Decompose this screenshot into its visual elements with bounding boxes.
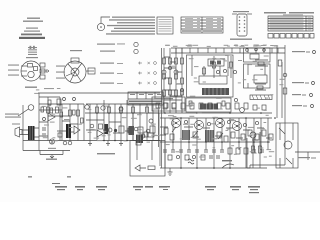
label text [230,186,241,188]
label text [185,27,193,28]
resistor R175 [148,166,155,170]
label above [25,87,37,88]
junction dots [164,112,276,169]
label text [26,57,38,58]
wire [268,28,313,30]
speaker [15,127,22,137]
ZONE A: output stage left [5,87,160,178]
label text [151,135,157,136]
terminal circle [180,167,182,169]
driver triangle 1 [48,113,55,121]
label text [231,145,234,146]
label text [227,67,233,68]
cluster resistors [163,58,166,64]
label text [189,58,194,59]
label text [213,65,217,66]
wire [268,25,313,27]
label text [270,23,304,26]
resistor R33 [268,16,313,31]
label text [234,154,237,155]
label text [129,103,162,104]
resistor R113 [181,58,184,64]
coil L6 [200,104,218,110]
label text [148,94,153,95]
label text [203,30,222,32]
potentiometer arrow [172,127,223,139]
resistor R163 [230,62,233,68]
terminal circle [239,20,241,22]
label text [253,61,257,62]
label text [211,138,217,139]
terminal circle [63,141,67,145]
wire [135,165,146,171]
tube V11 [233,122,242,131]
label text [264,122,267,123]
label text [107,25,155,26]
tube base diagram left [8,47,49,81]
resistor R87 [50,108,53,113]
label text [196,139,201,140]
label text [254,45,259,46]
label text [130,94,135,95]
resistor R84 [56,107,59,113]
label text [185,21,193,22]
ZONE D: power supply [247,123,320,168]
label text [248,127,254,128]
tube top small [28,105,34,111]
wire [268,23,313,25]
label text [159,26,172,27]
wire [307,152,309,160]
coil L4 [129,126,135,135]
wire [252,95,270,100]
if box internals [214,56,231,78]
label text [220,58,225,59]
label text [211,123,215,124]
label text [5,114,19,115]
resistor R109 [222,101,225,106]
label text [193,131,197,132]
label text [143,112,148,113]
label text [151,124,156,125]
label text [238,60,242,61]
label text [173,46,178,47]
label text [28,49,37,50]
resistor R139 [253,105,257,110]
resistor R114 [169,78,172,84]
vertical drops [165,118,268,168]
wires around transformer [22,128,39,137]
label text [234,45,238,46]
label text [185,24,193,25]
label text [219,109,223,110]
label text [147,142,151,143]
output transformer [28,126,35,140]
label text [24,31,40,32]
wire [39,110,70,136]
label text [270,16,304,19]
label text [36,89,39,90]
label text [165,45,169,46]
label text [274,46,278,47]
label text [114,28,155,29]
mid rails [160,113,272,118]
label text [203,82,206,83]
resistor R166 [252,146,255,153]
wire [192,55,228,76]
left edge verticals of RF zone [159,48,162,168]
label text [227,46,230,47]
IF can box 1 [187,55,234,97]
ZONE B: middle dense [85,100,160,141]
label text [69,127,72,128]
resistor R115 [181,78,184,84]
label text [28,52,37,53]
resistor R165 [257,86,263,89]
resistor R154 [244,148,248,154]
label text [171,66,176,67]
resistor R57 [40,75,45,79]
label text [129,101,162,103]
resistor R135 [217,103,221,109]
resistor R130 [172,103,176,109]
resistor R104 [156,103,160,108]
resistor R119 [208,59,224,66]
label text [186,45,192,46]
junction [175,122,177,124]
label text [191,137,195,138]
terminal circle [114,129,117,132]
resistor R149 [255,134,259,140]
terminal circle [114,140,116,142]
wire [21,75,27,77]
label text [50,122,55,123]
wire [255,84,266,90]
wire [66,63,82,82]
label text [253,46,257,47]
resistor R152 [228,148,232,154]
mixed comps [164,128,168,134]
terminal circle [154,72,157,75]
label text [164,144,170,145]
label text [250,151,254,152]
label text [226,130,229,131]
label text [185,18,193,19]
wire [88,141,123,146]
label text [270,26,304,29]
II marks [28,176,32,178]
label text [42,106,46,107]
resistor R162 [213,62,216,68]
label text [159,31,172,32]
label text [8,75,19,76]
wire [268,18,313,20]
resistor R134 [208,103,212,109]
resistor R137 [235,103,239,109]
ZONE F: bottom labels [52,183,260,193]
label text [194,81,200,82]
label text [212,58,216,59]
label text [98,189,105,190]
terminal circle [192,155,195,158]
tube V9 [195,121,204,130]
wire [207,130,212,142]
label text [233,11,249,12]
label text [259,148,264,149]
label text [34,93,38,94]
terminal circle [229,167,231,169]
wire [85,112,160,114]
label text [70,50,82,51]
label text [157,94,161,95]
label text [272,45,276,46]
row of small boxes [268,34,314,39]
wire [306,51,310,53]
terminal circle [188,141,190,143]
resistor R47 [310,34,314,39]
terminal circle [176,155,179,158]
small circle [49,139,54,144]
label text [266,149,271,150]
mid zone extra ties [160,127,272,140]
box top-right of zone B [152,97,185,111]
terminal circle [243,123,246,126]
coil L11 [205,130,214,142]
label text [159,21,172,22]
antenna label [5,114,21,125]
wire [255,60,268,66]
label text [100,63,114,64]
label text [97,44,115,45]
terminal circle [255,48,258,51]
tube V13 [284,141,292,149]
resistor R125 [254,75,267,83]
resistor R62 [88,68,95,74]
wire [138,62,150,65]
terminal circle [154,82,157,85]
label text [207,46,211,47]
label text [260,69,263,70]
resistor R40 [268,34,273,39]
label text [53,137,56,138]
resistor R100 [133,113,159,141]
tube V5 [71,68,79,76]
label text [112,17,155,18]
label text [56,66,65,67]
resistor R53 [28,64,33,68]
junction [100,26,102,28]
label text [212,117,216,118]
long right verticals [277,45,285,165]
label text [8,70,19,71]
resistor R71 [128,92,163,105]
resistor R153 [236,148,240,154]
resistor R140 [262,105,266,110]
label text [165,45,170,46]
terminal circle [101,106,105,110]
resistor R167 [259,146,262,153]
wire [30,126,32,140]
terminal circle [239,23,241,25]
resistor R86 [77,110,80,116]
vertical wires [48,97,84,141]
resistor R56 [40,69,45,73]
wire [70,124,78,132]
terminal circle [119,107,123,111]
coil L10 [182,130,190,140]
label text [97,153,115,154]
coupling bar [66,124,71,138]
resistor R121 [203,68,206,74]
resistor R44 [292,34,297,39]
small bordered note box [157,17,173,34]
terminal circle [164,112,166,114]
label text [154,135,160,136]
wire [154,92,156,99]
label text [264,157,267,158]
label text [109,19,155,20]
label text [180,138,183,139]
wire [201,17,203,33]
wire [86,104,160,135]
label text [224,45,229,46]
label text [159,186,167,188]
label text [190,124,195,125]
resistor R156 [185,155,189,160]
label text [193,137,199,138]
resistor R131 [181,103,185,109]
label text [159,28,172,29]
resistor R93 [146,107,149,113]
wire [181,22,223,24]
resistor R90 [108,107,111,113]
resistor R61 [71,58,79,63]
label text [266,98,269,99]
label text [133,186,143,188]
resistor R161 [181,90,184,95]
label text [100,73,114,74]
label text [243,79,246,80]
label text [124,140,127,141]
wire [295,151,320,153]
label text [292,94,301,95]
terminal circle [180,88,183,91]
label text [159,19,172,20]
terminal circle [223,69,226,72]
terminal circle [207,122,210,125]
resistor R95 [119,126,124,133]
terminal circle [174,70,178,74]
resistor R107 [186,98,231,112]
label text [162,186,170,187]
wire [128,98,163,100]
resistor R82 [58,133,62,137]
transformer winding T5 [136,135,143,143]
wire [247,13,252,15]
wire [203,104,214,110]
label text [57,88,61,89]
label text [189,116,194,117]
resistor R128 [283,88,287,94]
resistor R41 [274,34,279,39]
terminal circle [168,66,171,69]
battery under rail [40,151,63,159]
label text [206,27,213,28]
wire [21,70,27,72]
bandfilter strip box right [186,98,244,112]
resistor R42 [280,34,285,39]
label text [270,21,304,24]
label text [75,186,85,188]
terminal circle [283,73,287,77]
label text [270,94,274,95]
label text [182,30,201,32]
label text [239,46,244,47]
terminal circle [43,118,46,121]
resistor R30 [237,14,247,36]
label text [248,186,260,188]
label text [292,105,302,106]
coil L8 [217,61,221,65]
label text [194,78,197,79]
label text [163,189,168,190]
label text [231,120,237,121]
label text [292,82,304,83]
driver triangle 2 [74,126,80,134]
tube V12 [250,132,256,138]
label text [154,109,160,110]
label text [279,84,283,85]
label text [107,134,110,135]
label text [111,31,155,32]
resistor R136 [226,103,230,109]
label text [189,105,195,106]
label text [234,45,238,46]
label text [88,109,92,110]
resistor R88 [60,112,63,117]
resistor R116 [163,90,166,96]
wire [311,157,316,159]
label text [199,157,204,158]
label text [187,105,193,106]
wire [90,100,153,141]
label text [253,153,256,154]
resistor R102 [136,141,141,145]
terminal circle [246,49,249,52]
label text [270,45,273,46]
resistor R147 [241,134,245,140]
resistor R133 [199,103,203,109]
resistor R92 [132,107,135,113]
wire [232,13,237,15]
tube V2 [21,61,41,81]
terminal circle [233,70,236,73]
label text [257,108,260,109]
wire [136,92,138,99]
resistor R81 [57,99,61,105]
label text [67,176,71,178]
terminal circle [216,70,219,73]
tube V10 [216,119,225,128]
label text [8,65,19,66]
resistor R46 [304,34,309,39]
label text [77,189,83,190]
resistor R132 [190,103,194,109]
label text [210,65,216,66]
label text [214,117,218,118]
label text [5,117,21,118]
resistor Rx2 [81,118,84,123]
